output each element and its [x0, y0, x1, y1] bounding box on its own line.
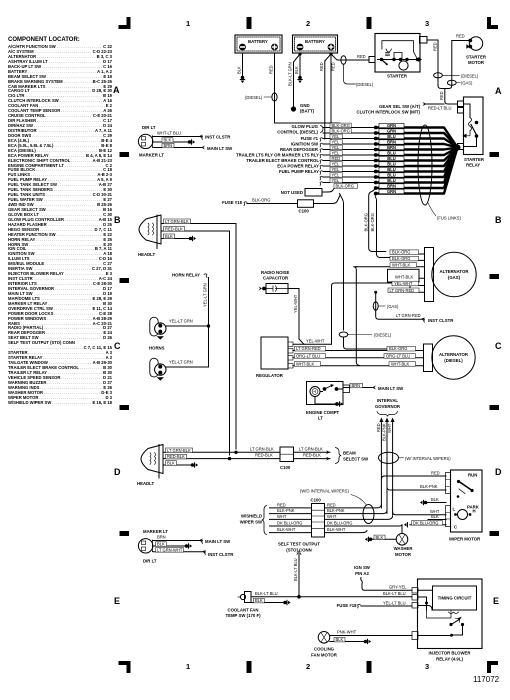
svg-text:BLU: BLU: [387, 156, 395, 161]
wire LT GRN-RED to inst clstr: [396, 313, 454, 323]
node fan dot row 3: [374, 137, 378, 141]
svg-text:C100: C100: [280, 465, 291, 470]
svg-text:BLK: BLK: [336, 637, 344, 642]
svg-text:RED: RED: [269, 65, 274, 74]
label W/SHIELD WIPER SW: [240, 506, 267, 535]
svg-text:YEL-LT GRN: YEL-LT GRN: [169, 319, 193, 324]
node fan dot row 5: [374, 148, 378, 152]
svg-text:BLU: BLU: [387, 178, 395, 183]
svg-text:ECA POWER RELAY: ECA POWER RELAY: [277, 164, 319, 169]
row tick left DE: [120, 531, 130, 536]
svg-text:BLK-LT BLU: BLK-LT BLU: [255, 591, 278, 596]
svg-text:DK BLU-ORG: DK BLU-ORG: [413, 520, 438, 525]
node fan dot row 2: [374, 131, 378, 135]
svg-text:BLK-LT BLU: BLK-LT BLU: [293, 558, 298, 581]
svg-text:YEL: YEL: [332, 150, 340, 155]
wire BLK-LT BLU from STO down: [293, 551, 301, 599]
node fan dot row 9: [374, 170, 378, 174]
svg-text:BLK-PNK: BLK-PNK: [327, 508, 345, 513]
corner mark bottom-right: [487, 661, 498, 673]
node fan dot row 13: [374, 192, 378, 196]
svg-text:GRN: GRN: [387, 189, 396, 194]
svg-text:WASHER: WASHER: [394, 546, 414, 551]
svg-text:H: H: [473, 509, 476, 514]
wire horn feed vertical: [203, 278, 209, 368]
wire BLK marker top to ground: [153, 138, 195, 145]
connector not used: [305, 189, 322, 197]
svg-text:GRN: GRN: [387, 123, 396, 128]
fusible link wire row 11: [323, 182, 376, 184]
svg-text:FUSE #1: FUSE #1: [301, 136, 319, 141]
svg-text:LT GRN-WHT: LT GRN-WHT: [157, 547, 183, 552]
svg-text:YEL: YEL: [332, 145, 340, 150]
wire starter RED down right side: [427, 40, 445, 89]
svg-text:LT GRN-BLK: LT GRN-BLK: [299, 446, 323, 451]
wire BLK-WHT wiper row: [270, 527, 368, 533]
alternator diesel connector: [424, 344, 433, 372]
svg-text:STARTER: STARTER: [464, 157, 485, 162]
svg-text:C: C: [114, 341, 121, 351]
wire B2 RED to starter: [331, 54, 369, 60]
loop w/o interval wipers: [363, 505, 374, 524]
svg-text:HEADLT: HEADLT: [137, 481, 154, 486]
value label BLU row 11: [379, 178, 404, 182]
svg-text:BLU: BLU: [387, 167, 395, 172]
wire fan converge row 2: [376, 133, 458, 148]
wire GRY-YEL ign sw to relay: [361, 578, 412, 591]
svg-text:ENGINE COMPT: ENGINE COMPT: [306, 410, 340, 415]
svg-text:BLK: BLK: [167, 461, 175, 466]
node B2 negative: [298, 52, 301, 55]
wire BLK coolant to ground: [251, 598, 291, 605]
svg-text:LT GRN-RED: LT GRN-RED: [296, 346, 321, 351]
svg-text:BLK: BLK: [157, 542, 165, 547]
svg-text:SELF TEST OUTPUT: SELF TEST OUTPUT: [278, 542, 320, 547]
wire GRN row to diesel feed vertical: [340, 194, 344, 331]
label SELF TEST OUTPUT (STO) CONN: [278, 542, 320, 553]
value label YEL row 9: [330, 167, 342, 172]
value label YEL row 11: [330, 178, 342, 183]
svg-text:WHT: WHT: [327, 514, 337, 519]
svg-text:MARKER LT: MARKER LT: [143, 529, 168, 534]
svg-text:IGNITION SW: IGNITION SW: [291, 142, 319, 147]
value label YEL row 8: [330, 162, 342, 167]
svg-text:C: C: [454, 525, 457, 530]
svg-text:BLU: BLU: [387, 134, 395, 139]
svg-text:MAIN LT SW: MAIN LT SW: [205, 539, 231, 544]
svg-text:WIPER MOTOR: WIPER MOTOR: [449, 537, 481, 542]
svg-text:COOLANT FAN: COOLANT FAN: [227, 608, 258, 613]
wire BLK-PNK wiper row: [270, 508, 388, 514]
svg-text:BLK-PNK: BLK-PNK: [277, 508, 295, 513]
alternator gas G1: [432, 252, 476, 296]
svg-text:YEL-LT BLU: YEL-LT BLU: [383, 600, 406, 605]
battery B2: [293, 35, 338, 53]
svg-text:(BATT): (BATT): [300, 109, 315, 114]
svg-text:YEL: YEL: [332, 172, 340, 177]
svg-text:A: A: [495, 86, 502, 96]
svg-text:YEL: YEL: [332, 167, 340, 172]
wire BLK ground into wiper motor: [420, 497, 446, 505]
wire BLK-LT BLU coolant to relay: [251, 591, 412, 597]
svg-text:BLU: BLU: [387, 173, 395, 178]
wire WHT-LT BLU to inst clstr: [153, 131, 231, 140]
wire LT GRN-BLK bottom headlt: [163, 446, 280, 453]
wire LT GRN-RED regulator row to diesel alternator: [293, 346, 424, 351]
svg-text:INST CLSTR: INST CLSTR: [428, 318, 454, 323]
svg-text:WHT-BLK: WHT-BLK: [391, 361, 409, 366]
horn lower: [150, 358, 166, 380]
value label BLK-ORG gas row1: [390, 250, 419, 255]
node fan dot row 7: [374, 159, 378, 163]
wire BLK washer motor ground: [365, 535, 396, 542]
svg-text:YEL: YEL: [332, 178, 340, 183]
svg-text:BLK-PNK: BLK-PNK: [420, 484, 438, 489]
svg-text:(DIESEL): (DIESEL): [444, 358, 463, 363]
wire B1 BLK to ground: [237, 53, 246, 83]
svg-text:BLK-WHT: BLK-WHT: [327, 527, 346, 532]
svg-text:(GAS): (GAS): [387, 304, 399, 309]
headlight top: [138, 215, 161, 257]
value label BLU row 6: [379, 151, 404, 155]
wire fan converge row 5: [376, 148, 458, 150]
wire LT GRN-RED up to gas alternator: [332, 283, 425, 344]
svg-text:RED: RED: [376, 423, 381, 432]
wire WHT interval governor: [387, 418, 395, 515]
svg-text:LT GRN-RED: LT GRN-RED: [396, 313, 421, 318]
svg-text:E: E: [114, 596, 120, 606]
starter relay K1: [458, 97, 485, 168]
svg-text:BRN: BRN: [387, 184, 396, 189]
label (W/ INTERVAL WIPERS): [399, 456, 452, 461]
svg-text:DIR LT: DIR LT: [143, 559, 157, 564]
svg-text:CLUTCH INTERLOCK SW (M/T): CLUTCH INTERLOCK SW (M/T): [357, 110, 421, 115]
node fan dot row 11: [374, 181, 378, 185]
svg-text:BLK-ORG: BLK-ORG: [363, 213, 368, 231]
svg-text:GND: GND: [300, 103, 310, 108]
relay internals: [418, 590, 464, 637]
svg-text:LT GRN-BLK: LT GRN-BLK: [165, 219, 189, 224]
svg-text:WHT-BLK: WHT-BLK: [395, 275, 413, 280]
svg-text:LT: LT: [318, 416, 323, 421]
arrow fuse 18: [244, 202, 247, 206]
svg-text:BLK-LT GRN: BLK-LT GRN: [288, 62, 293, 86]
svg-text:ORG-LT BLU: ORG-LT BLU: [386, 353, 410, 358]
svg-text:C: C: [495, 341, 502, 351]
row tick right AB: [490, 152, 500, 157]
node RED-BLK join: [228, 457, 231, 460]
svg-text:BLK: BLK: [165, 234, 173, 239]
svg-text:BLK-WHT: BLK-WHT: [277, 527, 296, 532]
svg-text:2: 2: [306, 19, 310, 28]
svg-text:1: 1: [186, 662, 190, 671]
svg-text:RED-LT BLU: RED-LT BLU: [428, 106, 452, 111]
wire RED interval governor: [376, 418, 384, 509]
svg-text:(GAS): (GAS): [448, 275, 461, 280]
svg-text:L: L: [453, 507, 456, 512]
svg-text:(DIESEL): (DIESEL): [461, 73, 479, 78]
svg-text:RUN: RUN: [468, 473, 477, 478]
horn upper: [150, 317, 166, 339]
svg-text:RED: RED: [332, 156, 341, 161]
svg-text:BEAM: BEAM: [343, 451, 356, 456]
wire B2 BLK to ground: [294, 54, 303, 83]
svg-text:BLK: BLK: [164, 138, 172, 143]
svg-text:BLK: BLK: [376, 535, 384, 540]
svg-text:WHT-LT BLU: WHT-LT BLU: [157, 131, 181, 136]
svg-text:BLK-ORG: BLK-ORG: [252, 198, 270, 203]
svg-text:TEMP SW (170 F): TEMP SW (170 F): [225, 613, 261, 618]
label FUSE #18 bottom: [337, 603, 361, 608]
(GAS) tag inst clstr wire: [373, 291, 421, 320]
fusible link wire row 2: [323, 132, 376, 134]
wire BLK-ORG vertical 1 from fan row 12: [363, 188, 385, 252]
fusible link wire row 8: [323, 165, 376, 167]
wire fan converge row 4: [376, 144, 458, 148]
value label BLU row 7: [379, 156, 404, 160]
svg-text:C100: C100: [299, 209, 310, 214]
wire YEL-LT GRN horn lower: [166, 360, 209, 368]
wire DK BLU-ORG wiper row: [270, 520, 403, 526]
svg-text:BATTERY: BATTERY: [305, 39, 325, 44]
wire WHT-BLK shared vertical: [353, 267, 359, 366]
svg-text:FUSE #18: FUSE #18: [337, 603, 357, 608]
wire B2 BLK-LT GRN to GND BATT: [288, 54, 301, 112]
wire ORG-LT BLU regulator row: [293, 353, 424, 358]
svg-text:FUEL PUMP RELAY: FUEL PUMP RELAY: [279, 169, 319, 174]
engine compartment lamp: [306, 382, 350, 421]
svg-text:BLK-ORG: BLK-ORG: [389, 346, 407, 351]
svg-text:RED: RED: [277, 502, 286, 507]
(DIESEL) tag on B1 RED: [245, 93, 277, 101]
wire BRN bottom marker to main lt sw: [153, 535, 231, 545]
alternator diesel G2: [432, 336, 475, 379]
(DIESEL) tag on starter wire: [434, 73, 479, 79]
wire fan converge row 13: [376, 148, 458, 194]
headlight bottom: [137, 445, 163, 487]
svg-text:DK BLU-ORG: DK BLU-ORG: [277, 520, 302, 525]
value label YEL row 3: [330, 134, 342, 139]
fusible link wire row 6: [323, 154, 376, 156]
wire fan converge row 7: [376, 148, 458, 161]
label HORN RELAY: [172, 273, 207, 278]
svg-text:BLK: BLK: [237, 66, 242, 74]
svg-text:BLK: BLK: [294, 66, 299, 74]
wire BLK-ORG vertical 2 from fan row 13: [370, 194, 391, 258]
value label BRN row 5: [379, 145, 404, 149]
wire fan converge row 1: [376, 128, 458, 148]
wire RED-BLK headlt top: [161, 226, 230, 455]
svg-text:117072: 117072: [473, 675, 500, 684]
svg-text:RED-BLK: RED-BLK: [167, 454, 185, 459]
svg-text:WHT-BLK: WHT-BLK: [296, 361, 314, 366]
wire BLK into wiper motor: [428, 514, 446, 520]
svg-text:(DIESEL): (DIESEL): [374, 333, 392, 338]
wire LT GRN-WHT to inst clstr: [153, 547, 234, 557]
wire B2 RED right branch down: [331, 54, 336, 144]
svg-text:DK BLU-ORG: DK BLU-ORG: [327, 520, 352, 525]
wire BLK bottom marker to ground: [153, 542, 192, 549]
value label BLU row 8: [379, 162, 404, 166]
value label YEL row 10: [330, 173, 342, 178]
svg-text:FUSE #18: FUSE #18: [222, 200, 242, 205]
svg-text:WHT: WHT: [277, 514, 287, 519]
wire YEL-LT BLU fuse to relay: [361, 600, 412, 606]
svg-text:BLK-ORG: BLK-ORG: [332, 123, 350, 128]
wire fan converge row 3: [376, 139, 458, 148]
wire YEL-LT GRN horn upper: [166, 319, 210, 328]
svg-text:RELAY (4.9L): RELAY (4.9L): [436, 656, 463, 661]
svg-text:YEL-LT GRN: YEL-LT GRN: [203, 283, 208, 307]
svg-text:RED: RED: [357, 54, 366, 59]
node fan dot row 10: [374, 175, 378, 179]
node fan dot row 1: [374, 126, 378, 130]
value label BLK-ORG row 1: [330, 123, 351, 128]
column tick bottom 2: [367, 661, 372, 673]
svg-text:IGN SW: IGN SW: [354, 565, 371, 570]
alternator gas connector: [356, 248, 433, 302]
svg-text:INTERVAL: INTERVAL: [377, 398, 398, 403]
svg-text:HEADLT: HEADLT: [138, 252, 155, 257]
connector C100 fuse18: [298, 200, 314, 208]
svg-text:YEL-WHT: YEL-WHT: [306, 338, 325, 343]
wire fan converge row 8: [376, 148, 458, 167]
value label RED row 7: [330, 156, 342, 161]
svg-text:E: E: [493, 596, 499, 606]
wire fan converge row 6: [376, 148, 458, 156]
svg-text:BRN: BRN: [352, 383, 361, 388]
row tick right BC: [490, 274, 500, 279]
node fan dot row 12: [374, 186, 378, 190]
svg-text:BLU: BLU: [387, 162, 395, 167]
wire BLK-PNK interval governor: [382, 418, 390, 514]
brace glow plug rows: [321, 126, 324, 133]
label (W/O INTERVAL WIPERS): [300, 489, 366, 505]
column tick bottom 1: [247, 661, 252, 673]
wire fan converge row 11: [376, 148, 458, 183]
marker lamp bottom: [138, 539, 152, 553]
svg-text:REGULATOR: REGULATOR: [256, 373, 284, 378]
svg-text:BLK-PNK: BLK-PNK: [382, 423, 387, 441]
svg-text:(DIESEL): (DIESEL): [245, 95, 263, 100]
svg-text:GRN: GRN: [387, 129, 396, 134]
radio noise capacitor C1: [259, 270, 290, 294]
row tick left BC: [120, 278, 130, 283]
wire BRN to main lt sw: [153, 143, 233, 151]
svg-text:BLK-ORG: BLK-ORG: [392, 250, 410, 255]
svg-text:CONTROL (DIESEL): CONTROL (DIESEL): [277, 130, 318, 135]
(GAS) tag on starter motor wire: [447, 80, 473, 86]
value label GRN row 2: [379, 129, 404, 133]
fusible link wire row 1: [323, 127, 376, 129]
svg-text:STARTER: STARTER: [466, 55, 487, 60]
svg-text:WHT-BLK: WHT-BLK: [392, 263, 410, 268]
svg-text:RELAY: RELAY: [466, 163, 480, 168]
svg-text:COOLING: COOLING: [314, 647, 335, 652]
svg-text:MAIN LT SW: MAIN LT SW: [378, 386, 404, 391]
wire not used to fan row 12: [322, 189, 334, 193]
value label YEL row 6: [330, 151, 342, 156]
fusible link wire row 7: [323, 160, 376, 162]
connector C100 wiper vertical: [311, 498, 325, 538]
wire RED-BLK to beam select: [294, 453, 331, 461]
svg-text:YEL-WHT: YEL-WHT: [394, 281, 413, 286]
svg-text:BLK-LT BLU: BLK-LT BLU: [383, 591, 406, 596]
svg-text:GLOW PLUG: GLOW PLUG: [292, 124, 319, 129]
svg-text:C100: C100: [311, 498, 322, 503]
svg-text:MOTOR: MOTOR: [468, 60, 485, 65]
svg-text:REAR DEFOGGER: REAR DEFOGGER: [280, 147, 319, 152]
brace beam select: [336, 448, 342, 464]
svg-text:SELECT SW: SELECT SW: [343, 456, 369, 461]
fusible link wire row 5: [323, 149, 376, 151]
svg-text:BLK: BLK: [431, 497, 439, 502]
wire LT GRN-BLK headlt top: [161, 219, 236, 449]
fusible link wire row 9: [323, 171, 376, 173]
svg-text:(W/ INTERVAL WIPERS): (W/ INTERVAL WIPERS): [405, 456, 451, 461]
svg-text:BLK-ORG: BLK-ORG: [392, 256, 410, 261]
value label BLU row 9: [379, 167, 404, 171]
svg-text:(W/O INTERVAL WIPERS): (W/O INTERVAL WIPERS): [300, 489, 349, 494]
svg-text:YEL: YEL: [332, 134, 340, 139]
voltage regulator VR1: [256, 337, 293, 378]
svg-text:YEL: YEL: [332, 139, 340, 144]
wire RED-LT BLU to gear sel sw: [426, 103, 444, 105]
battery B1: [235, 35, 282, 53]
svg-text:B: B: [495, 215, 502, 225]
svg-text:(FUS LINKS): (FUS LINKS): [437, 216, 462, 221]
wire merged RED down to relay: [439, 89, 457, 105]
svg-text:WIPER SW: WIPER SW: [240, 519, 263, 524]
svg-text:TRAILER LTS RLY OR MARKER LTS: TRAILER LTS RLY OR MARKER LTS RLY: [236, 153, 319, 158]
wire BLK cooling fan to ground: [330, 637, 371, 644]
svg-text:HORN RELAY: HORN RELAY: [172, 273, 200, 278]
washer motor M3: [394, 525, 414, 557]
svg-text:RED: RED: [456, 34, 465, 39]
value label BLU row 3: [379, 134, 404, 138]
wire BRN to main lt sw: [343, 383, 404, 391]
svg-text:HORNS: HORNS: [149, 346, 165, 351]
svg-text:TIMING CIRCUIT: TIMING CIRCUIT: [438, 596, 472, 601]
svg-text:MARKER LT: MARKER LT: [139, 153, 164, 158]
svg-text:BRN: BRN: [157, 535, 166, 540]
value label YEL row 5: [330, 145, 342, 150]
cooling fan motor M4: [311, 632, 338, 658]
marker lamp top: [138, 134, 164, 157]
svg-text:BLK: BLK: [431, 514, 439, 519]
svg-text:LT GRN-BLK: LT GRN-BLK: [250, 446, 274, 451]
svg-text:ALTERNATOR: ALTERNATOR: [439, 352, 469, 357]
value label BLK-ORG row 12: [334, 184, 358, 189]
wire YEL-WHT regulator row: [293, 338, 332, 344]
svg-text:3: 3: [425, 19, 429, 28]
wire RED wiper row: [270, 502, 382, 508]
value label GRN row 13: [379, 189, 404, 193]
value label LT GRN-RED gas: [388, 288, 419, 293]
svg-text:YEL-WHT: YEL-WHT: [293, 294, 298, 313]
svg-text:BLK-ORG: BLK-ORG: [370, 213, 375, 231]
injector blower relay K2: [412, 579, 482, 661]
value label BLU row 10: [379, 173, 404, 177]
wire B2 RED left branch: [319, 54, 331, 139]
wire fan converge row 12: [376, 148, 458, 189]
svg-text:TRAILER ELECT BRAKE CONTROL: TRAILER ELECT BRAKE CONTROL: [246, 158, 319, 163]
wire BLK headlt top to ground: [161, 234, 196, 241]
starter motor M1: [466, 37, 487, 65]
label GND (BATT): [300, 103, 315, 114]
wire RED-BLK bottom headlt: [163, 453, 280, 460]
wiper motor M2: [446, 470, 483, 542]
